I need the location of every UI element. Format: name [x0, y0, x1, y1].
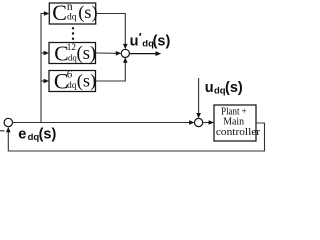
- minus sign: [0, 130, 4, 131]
- summing junction (plant input): [195, 118, 203, 126]
- label u_dq(s): [205, 80, 243, 97]
- svg-text:(s): (s): [153, 34, 171, 50]
- wire+arrow: summing junction to plant: [203, 120, 214, 125]
- wire: C^n output to summing junction top: [96, 14, 128, 50]
- wire: error tap vertical line: [41, 14, 45, 123]
- label u'_dq(s): [130, 31, 171, 50]
- svg-text:controller: controller: [216, 126, 261, 138]
- svg-text:(s): (s): [77, 43, 97, 64]
- wire+arrow into block C^6: [41, 79, 49, 84]
- wire+arrow: u'dq output: [129, 51, 161, 56]
- svg-text:dq: dq: [67, 81, 77, 91]
- summing junction (harmonic compensators): [121, 49, 129, 57]
- wire: e_dq error line to second summing junction: [13, 120, 195, 125]
- svg-text:(s): (s): [77, 71, 96, 92]
- wire+arrow into block C^n: [44, 11, 49, 16]
- svg-text:(s): (s): [78, 2, 97, 23]
- wire+arrow: u_dq input down into summing junction: [196, 78, 201, 118]
- vertical ellipsis dots: [72, 27, 74, 40]
- comparison junction (error): [4, 118, 12, 126]
- svg-text:C: C: [52, 0, 67, 25]
- wire: C^6 output to summing junction bottom: [96, 57, 128, 81]
- svg-text:e: e: [18, 126, 26, 142]
- wire+arrow into block C^12: [41, 51, 49, 56]
- block C^n_dq(s): [49, 0, 97, 25]
- block Plant + Main controller: [214, 105, 261, 141]
- svg-text:u: u: [130, 34, 139, 50]
- svg-text:12: 12: [67, 42, 77, 52]
- block C^6_dq(s): [49, 69, 96, 94]
- svg-text:(s): (s): [39, 126, 57, 142]
- svg-text:n: n: [67, 1, 73, 13]
- wire: C^12 output to summing junction left: [96, 51, 122, 56]
- svg-text:′: ′: [139, 31, 142, 45]
- svg-text:dq: dq: [67, 12, 77, 22]
- wire: plant output feedback loop: [6, 123, 265, 151]
- block C^12_dq(s): [49, 42, 96, 66]
- svg-text:u: u: [205, 80, 214, 96]
- svg-text:6: 6: [67, 69, 73, 81]
- label e_dq(s): [18, 126, 56, 143]
- svg-text:(s): (s): [225, 80, 243, 96]
